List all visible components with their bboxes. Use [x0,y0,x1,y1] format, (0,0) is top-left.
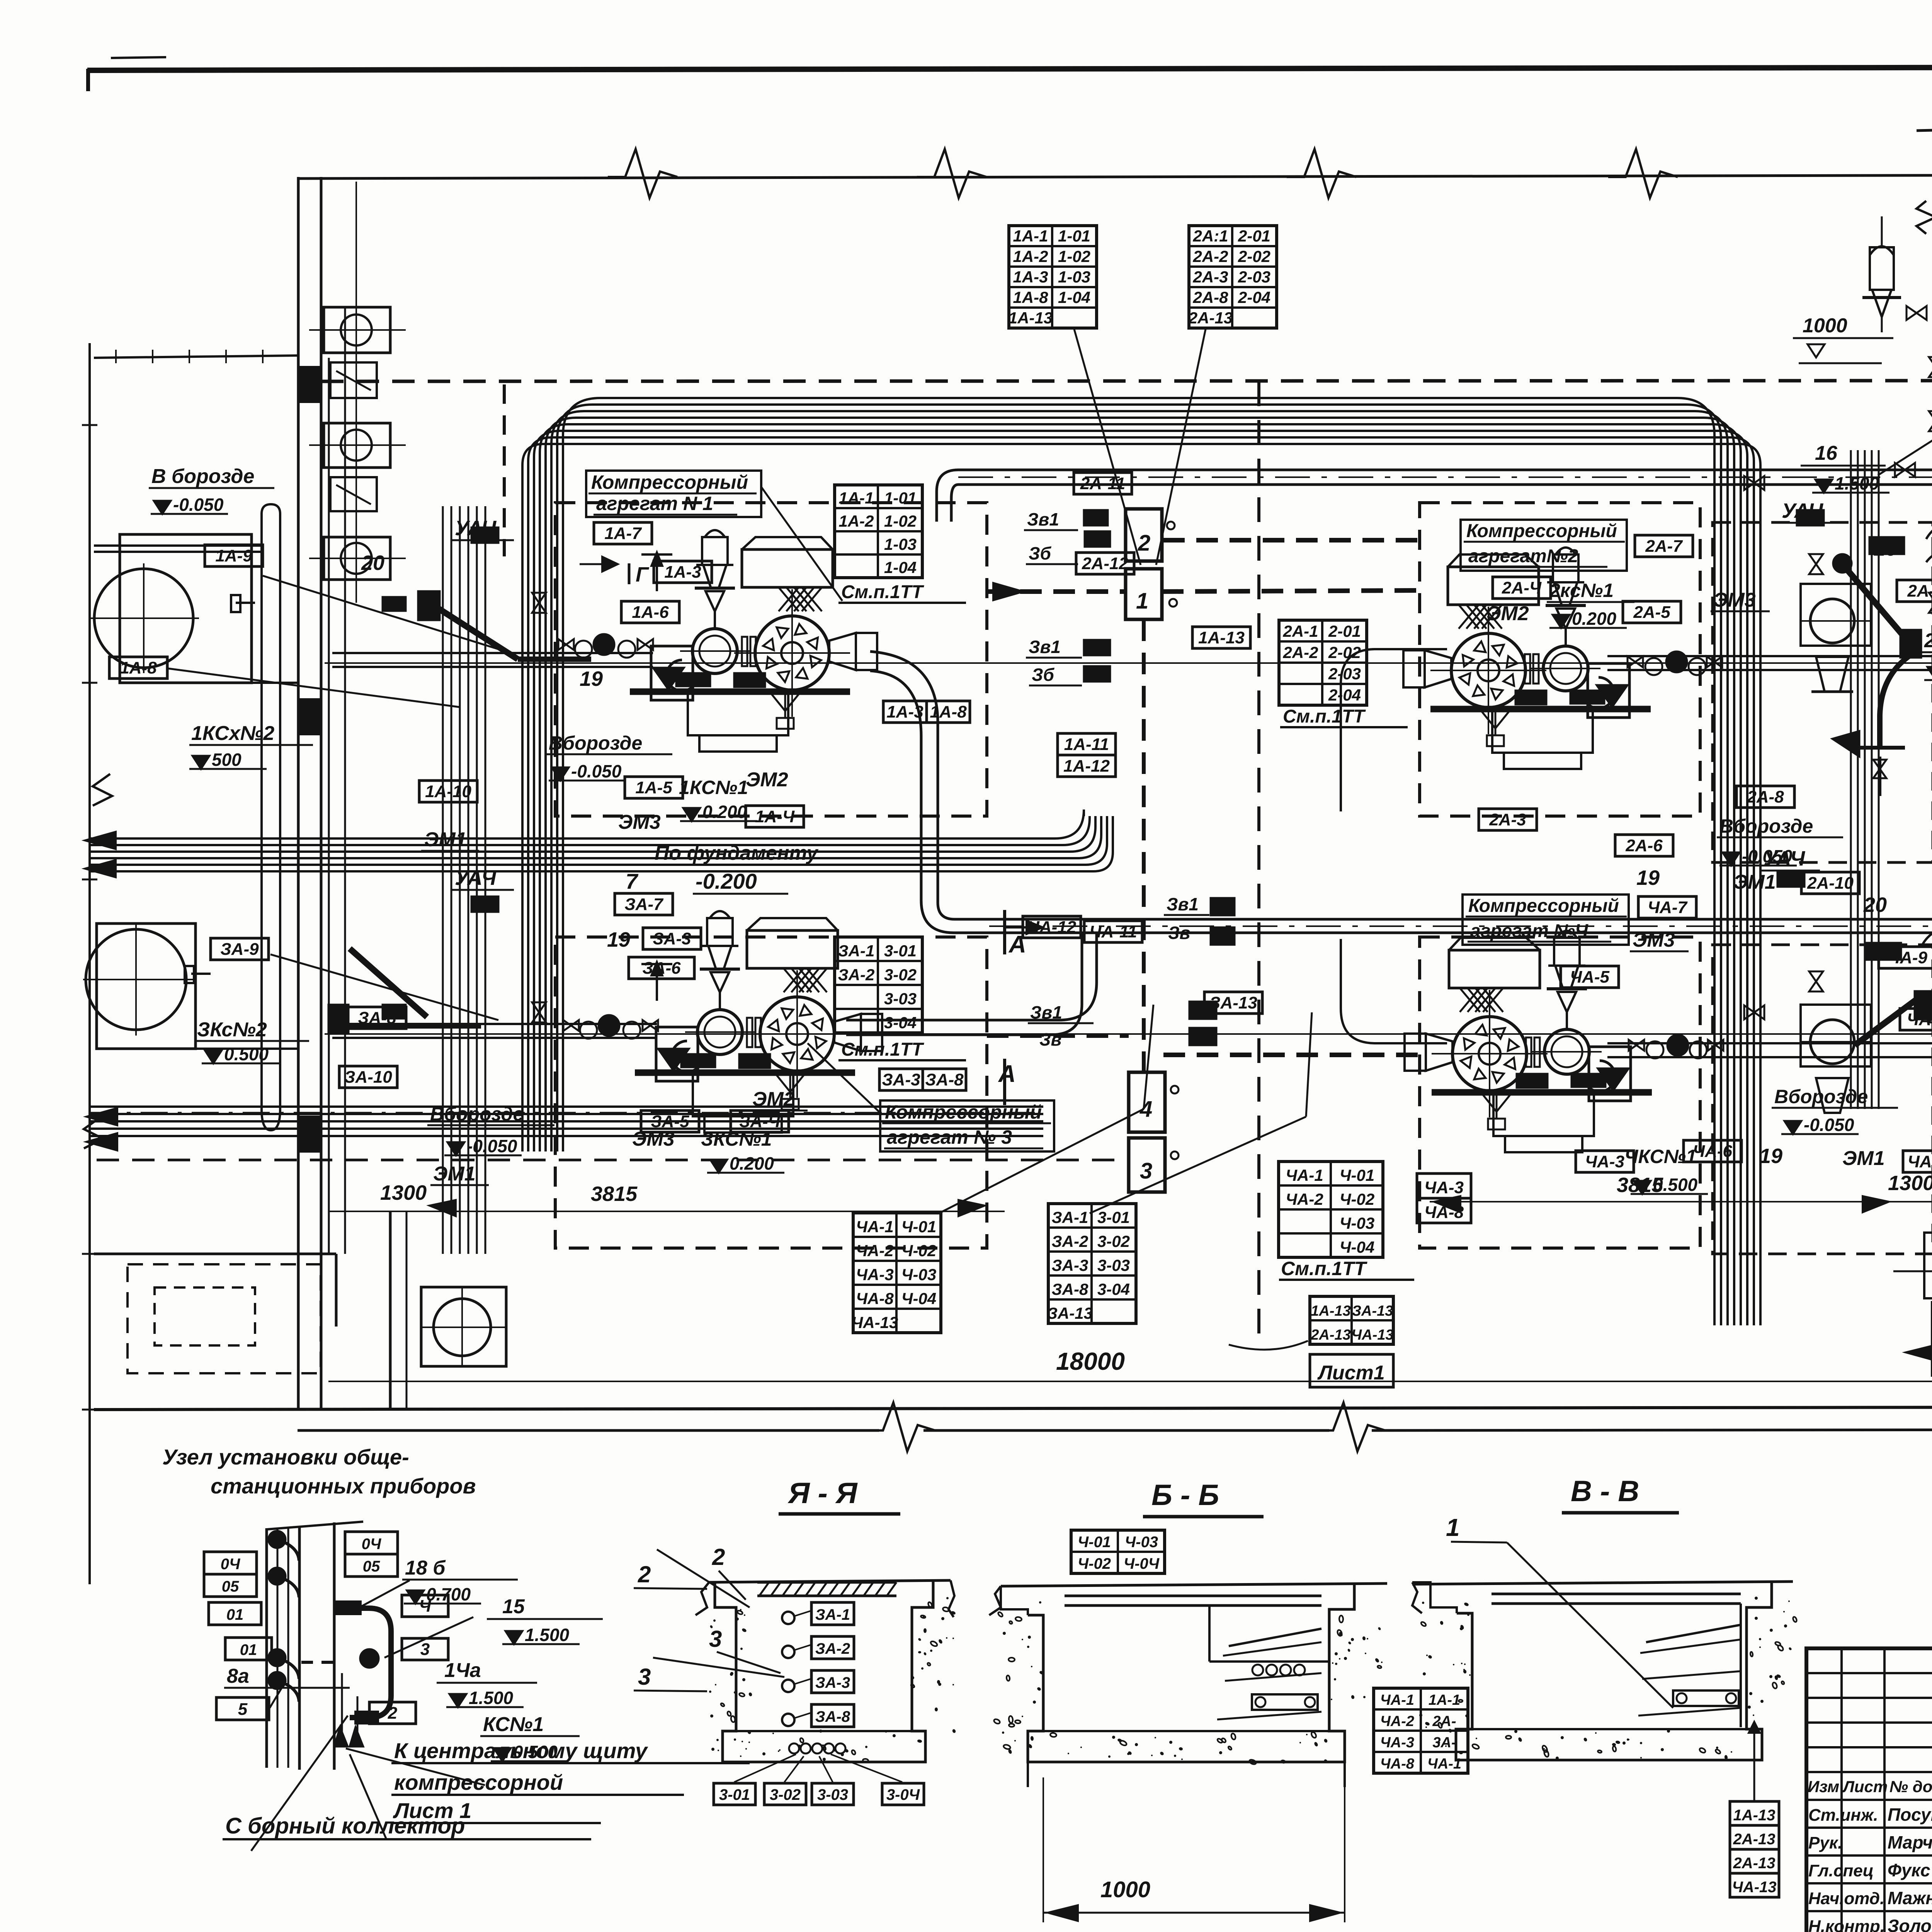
unit2 discharge elbow [1341,649,1447,811]
valves right column [1929,357,1932,377]
svg-text:ЧА-1: ЧА-1 [856,1218,893,1236]
hatched cover of А-А [757,1581,896,1584]
label box 2А-8 [1736,786,1794,808]
detail column (double wall) [265,1528,268,1768]
svg-text:2-03: 2-03 [1328,665,1361,683]
svg-text:1.500: 1.500 [469,1688,514,1708]
label box 2А-12 [1076,553,1134,574]
label box 1А-8 [109,657,167,679]
junction box 2 [1126,509,1162,561]
svg-text:2А-Ч: 2А-Ч [1502,578,1542,597]
svg-text:3-04: 3-04 [884,1014,917,1032]
svg-text:С борный коллектор: С борный коллектор [225,1813,465,1838]
svg-text:Г: Г [636,563,650,586]
svg-text:Зв1: Зв1 [1030,1002,1062,1022]
svg-text:УАЧ: УАЧ [1764,847,1806,870]
filter room dashed (right lower) [1713,945,1932,1254]
svg-text:-0.200: -0.200 [696,869,757,893]
valve group unit2 top [1809,554,1823,574]
concrete speckle А-А [744,1614,745,1616]
small pipes along left wall [332,652,653,654]
svg-text:Ч-04: Ч-04 [1340,1238,1374,1256]
Б-Б/В-В shared table ЧА [1374,1688,1468,1773]
svg-text:2А-2: 2А-2 [1192,247,1228,265]
label box ЧА-5 [1561,966,1619,988]
label box ЧА-8 [1900,1009,1932,1030]
svg-text:ЧКС№1: ЧКС№1 [1624,1146,1697,1167]
detail dashed pipe [301,1661,336,1664]
svg-text:№ докум.: № докум. [1889,1777,1932,1796]
svg-text:ЗА-10: ЗА-10 [344,1068,392,1087]
svg-text:1-01: 1-01 [1058,227,1090,245]
left wall column marks [298,367,321,402]
bottom-left annex room [94,1253,336,1255]
svg-text:1А-6: 1А-6 [632,603,669,622]
svg-text:1А-Ч: 1А-Ч [755,807,795,826]
svg-text:1-02: 1-02 [1058,247,1090,265]
Б-Б cover plate [1065,1595,1321,1597]
label box 1А-13 [1192,627,1250,648]
svg-text:3-03: 3-03 [1097,1256,1130,1274]
svg-text:3: 3 [709,1626,722,1652]
svg-text:Компрессорный: Компрессорный [591,471,748,493]
А-А bottom labels 3-01..3-04 [714,1783,755,1805]
label box ЧА-3 small [1576,1151,1634,1172]
svg-text:агрегат № 3: агрегат № 3 [887,1126,1012,1148]
svg-text:1А-12: 1А-12 [1063,757,1110,776]
safety valve symbol [1870,247,1894,290]
svg-text:2А-10: 2А-10 [1807,874,1854,893]
svg-text:1-02: 1-02 [884,512,917,530]
svg-text:Зб: Зб [1029,543,1052,563]
svg-text:Марченко: Марченко [1888,1832,1932,1852]
svg-text:ЧА-3: ЧА-3 [856,1265,893,1284]
concrete speckle Б-Б [1027,1646,1029,1648]
svg-text:Ч-02: Ч-02 [901,1242,936,1260]
label box ЧА-12 ЧА-11 [1023,916,1081,938]
svg-text:2А-3: 2А-3 [1489,810,1526,829]
svg-text:Зб: Зб [1032,665,1055,685]
svg-text:ЭМ1: ЭМ1 [1733,871,1776,893]
svg-text:В - В: В - В [1571,1475,1639,1508]
label box ЗА-8 left [348,1007,406,1029]
svg-text:1А-8: 1А-8 [930,702,967,721]
label box ЧА-9 [1879,947,1932,968]
svg-text:См.п.1ТТ: См.п.1ТТ [841,582,924,602]
svg-text:Нач.отд.: Нач.отд. [1808,1889,1884,1908]
junction box 4 [1129,1072,1165,1132]
svg-text:Компрессорный: Компрессорный [1468,896,1619,916]
unit axis line lower [325,1033,1932,1035]
break mark on top wall [1287,149,1356,198]
svg-text:ЧА-12: ЧА-12 [1027,918,1077,937]
svg-text:Ч-01: Ч-01 [1340,1166,1374,1184]
svg-text:ЗКС№1: ЗКС№1 [701,1128,772,1150]
dashed enclosure unit 2 [1420,503,1700,816]
label box ЧА-6 [1684,1140,1742,1162]
left annex room 1 [120,534,252,683]
svg-text:агрегат N 1: агрегат N 1 [596,493,713,514]
svg-text:К центральному щиту: К центральному щиту [394,1738,648,1763]
svg-text:ЗА-9: ЗА-9 [220,940,259,959]
svg-text:ЗА-8: ЗА-8 [1052,1280,1088,1298]
svg-text:1.500: 1.500 [525,1625,570,1645]
svg-text:2А-11: 2А-11 [1080,474,1126,493]
svg-text:В борозде: В борозде [151,465,254,488]
label box 2А-3 [1479,809,1537,830]
label box 1А-11/1А-12 [1058,733,1116,755]
svg-text:1А-2: 1А-2 [1013,247,1048,265]
Б-Б cable slide [1229,1629,1321,1646]
svg-text:ЧА-10: ЧА-10 [1908,1152,1932,1171]
svg-text:Зв: Зв [1039,1029,1061,1049]
svg-text:18 б: 18 б [405,1557,446,1579]
svg-text:0.200: 0.200 [730,1153,774,1173]
unit3 discharge elbow [846,933,1097,1020]
cable trench dashed line above bundle [321,381,1932,381]
svg-text:2-03: 2-03 [1238,268,1270,286]
compressor unit 1 (Компрессорный агрегат №1) [558,530,877,752]
svg-text:1КС№1: 1КС№1 [679,777,748,798]
label box ЗА-3 unit3 [643,928,701,949]
fan unit circle in left annex 2 [86,929,186,1030]
svg-text:1А-13: 1А-13 [1009,309,1053,327]
label box ЗА-13 [1204,992,1262,1014]
S-pipe unit2 (black) [1880,655,1911,748]
В-В bottom stack labels 13 [1730,1801,1779,1825]
dashed enclosure unit 4 [1420,937,1700,1248]
svg-text:19: 19 [1636,866,1660,889]
label box 1А-4 [746,806,804,827]
main discharge pipe upper (to right annex) [958,469,1932,471]
В-В cable slide [1646,1625,1741,1642]
label box 1А-3 [654,561,712,583]
svg-text:05: 05 [222,1578,239,1595]
svg-text:1А-3: 1А-3 [664,563,701,582]
svg-text:0.200: 0.200 [1572,609,1617,629]
section В-В trench [1412,1582,1422,1613]
section cut marker A lower [1003,1059,1006,1105]
svg-text:2А-8: 2А-8 [1747,787,1784,806]
label box 2А-10 [1801,872,1859,894]
svg-text:1А-13: 1А-13 [1733,1807,1776,1824]
svg-text:15: 15 [502,1595,525,1618]
detail label box 2 [369,1702,416,1724]
svg-text:ЗА-1: ЗА-1 [1052,1208,1088,1226]
svg-text:7: 7 [626,869,639,893]
svg-text:1КСх№2: 1КСх№2 [191,722,274,745]
svg-text:ЭМ3: ЭМ3 [632,1128,675,1150]
svg-text:Зв1: Зв1 [1167,894,1199,914]
svg-text:1А-3: 1А-3 [886,702,923,721]
unit1 discharge elbow [870,651,989,919]
break mark on top wall [917,149,986,198]
svg-text:-0.050: -0.050 [173,495,224,515]
stub pipe pair left annex [94,544,262,547]
svg-text:2А-5: 2А-5 [1633,603,1670,622]
compressor unit 3 (Компрессорный агрегат №3) [563,911,882,1133]
svg-text:ЭМ2: ЭМ2 [752,1088,795,1111]
svg-text:0.500: 0.500 [224,1044,269,1064]
svg-text:3-0Ч: 3-0Ч [886,1786,920,1803]
svg-text:2А-13: 2А-13 [1310,1327,1351,1343]
wall: left main wall (double) [297,177,300,1410]
leader lines from top tables [1074,329,1141,565]
svg-text:1300: 1300 [380,1181,427,1204]
svg-text:УАЧ: УАЧ [455,866,497,889]
svg-text:5: 5 [238,1700,248,1719]
section А-А trench [709,1580,951,1582]
wall connector boxes [330,362,377,398]
svg-text:ЧА-8: ЧА-8 [856,1289,894,1308]
svg-text:Компрессорный: Компрессорный [885,1101,1042,1123]
thick feed pipe unit2 (black) [1833,554,1852,573]
label box 1А-9 [205,545,263,566]
column line bottom-left [389,1211,392,1408]
heavy dashed interconnect lower [987,1033,1129,1038]
pipe bundle: main loop (left riser - top run - right riser) [522,444,1760,1325]
svg-text:1.500: 1.500 [1835,473,1879,493]
riser bundle left of unit enclosures [442,506,444,1254]
sheet top border line [87,66,1932,70]
svg-text:Ч-03: Ч-03 [901,1265,936,1284]
svg-text:2: 2 [1138,531,1150,556]
svg-text:ЧА-3: ЧА-3 [1380,1735,1414,1751]
svg-text:Изм: Изм [1808,1777,1839,1796]
svg-text:ЧА-1: ЧА-1 [1286,1166,1323,1184]
thick feed pipe unit4 (black) [1855,999,1917,1045]
floor drain unit bottom-left [421,1287,506,1366]
svg-text:ЭМ1: ЭМ1 [433,1163,476,1185]
svg-text:1: 1 [1446,1514,1460,1541]
svg-text:1А-2: 1А-2 [838,512,874,530]
svg-text:2-02: 2-02 [1238,247,1270,265]
svg-text:ЧА-13: ЧА-13 [1732,1879,1776,1896]
signal table unit4 (right) [1279,1162,1383,1257]
central axis dashed line [1257,381,1260,1341]
svg-text:ЗА-13: ЗА-13 [1209,993,1257,1012]
svg-text:-0.050: -0.050 [1804,1115,1854,1135]
svg-text:2: 2 [388,1704,398,1723]
svg-text:станционных приборов: станционных приборов [211,1474,476,1498]
thick feed pipe unit1 (black) [439,609,518,659]
label box ЗА-6 [629,957,694,979]
svg-text:Зв: Зв [1168,923,1190,943]
break chevron on left wall pipes [93,774,112,806]
svg-text:3815: 3815 [1617,1173,1663,1197]
svg-text:агрегат №Ч: агрегат №Ч [1470,921,1588,941]
svg-text:2А-12: 2А-12 [1082,554,1128,573]
svg-text:2-01: 2-01 [1238,227,1270,245]
main discharge pipe lower [989,918,1932,921]
svg-text:ЭМ2: ЭМ2 [1486,602,1529,625]
svg-text:Вборозде: Вборозде [1719,815,1813,837]
svg-text:2А-: 2А- [1432,1713,1456,1730]
section cut marker A upper [1003,910,1006,954]
label box ЗА-5 [641,1111,699,1132]
svg-text:ЧА-8: ЧА-8 [1380,1756,1415,1772]
svg-text:3-03: 3-03 [817,1786,848,1803]
svg-text:Ч-0Ч: Ч-0Ч [1124,1555,1160,1572]
svg-text:Ч-04: Ч-04 [901,1289,936,1308]
unit2 suction pipe [1607,655,1932,657]
svg-text:Посупонько: Посупонько [1888,1804,1932,1825]
svg-text:Зв1: Зв1 [1029,637,1061,657]
svg-text:Ч-03: Ч-03 [1340,1214,1374,1232]
svg-text:3-01: 3-01 [884,942,917,960]
svg-text:3-02: 3-02 [884,966,917,984]
svg-text:3-04: 3-04 [1097,1280,1130,1298]
detail label box 01 second [225,1638,272,1660]
svg-text:05: 05 [363,1558,380,1575]
wall instrument boxes with circles [324,307,390,353]
svg-text:Мажников: Мажников [1888,1888,1932,1908]
junction box 3 [1129,1138,1165,1192]
svg-text:ЭМ3: ЭМ3 [1633,929,1675,951]
svg-text:Ч: Ч [419,1597,431,1616]
detail label box 3 [402,1638,448,1660]
svg-text:ЧА-13: ЧА-13 [852,1313,898,1332]
compressor unit 4 (Компрессорный агрегат №4) [1405,931,1723,1152]
svg-text:2А-13: 2А-13 [1188,309,1233,327]
break mark on top wall [1608,149,1678,198]
svg-text:2А-8: 2А-8 [1192,288,1228,306]
svg-text:Лист: Лист [1842,1777,1888,1796]
wall: left annex outer wall [88,343,91,1584]
svg-text:ЧА-7: ЧА-7 [1648,898,1688,917]
label box ЗА-7 [615,893,673,915]
wall riser lines inside left wall [328,358,330,1254]
svg-text:ЭМ1: ЭМ1 [1842,1147,1885,1170]
svg-text:1А-8: 1А-8 [1013,288,1048,306]
detail label box У [402,1595,448,1617]
svg-text:1А-1: 1А-1 [1013,227,1048,245]
svg-text:2А-9: 2А-9 [1907,582,1932,600]
svg-text:См.п.1ТТ: См.п.1ТТ [1283,706,1366,727]
svg-text:19: 19 [607,928,630,951]
svg-text:КС№1: КС№1 [483,1713,544,1736]
label box ЗА-3|ЗА-8 pair [879,1069,923,1090]
svg-text:1А-3: 1А-3 [1013,268,1048,286]
detail label boxes 04/05 left [204,1552,257,1574]
svg-text:ЭМ3: ЭМ3 [618,811,661,833]
svg-text:ЗА-2: ЗА-2 [838,966,875,984]
break mark on top wall [608,149,677,198]
svg-text:ЧА-5: ЧА-5 [1570,968,1610,986]
svg-text:ЗА-1: ЗА-1 [838,942,875,960]
svg-text:18000: 18000 [1056,1347,1125,1375]
svg-text:ЗКс№2: ЗКс№2 [197,1019,267,1041]
svg-text:1-03: 1-03 [1058,268,1090,286]
label box 2А-6 [1615,835,1673,856]
svg-text:3: 3 [1140,1158,1152,1184]
svg-text:3-03: 3-03 [884,990,917,1008]
svg-text:1-01: 1-01 [884,489,917,507]
svg-text:ЭМ3: ЭМ3 [1713,589,1756,611]
svg-text:500: 500 [212,750,241,770]
signal table 1A (top) [1009,226,1097,328]
svg-text:20: 20 [1863,893,1887,917]
svg-text:1А-11: 1А-11 [1064,735,1109,754]
left annex mid walls [120,682,298,684]
svg-text:ЗА-13: ЗА-13 [1352,1303,1393,1319]
svg-text:3: 3 [420,1640,430,1659]
А-А bottom dots [789,1743,799,1753]
label box ЗА-4 [731,1111,789,1132]
svg-text:Лист1: Лист1 [1317,1362,1385,1384]
svg-text:2КС №2: 2КС №2 [1924,629,1932,652]
svg-text:Зв1: Зв1 [1027,509,1059,529]
svg-text:3-02: 3-02 [770,1786,801,1803]
label box 1А-3|1А-8 pair [883,701,927,723]
svg-text:1000: 1000 [1100,1877,1150,1902]
sheet reference Лист 1 [1310,1354,1393,1387]
detail label box 5 [216,1697,269,1720]
svg-text:ЧА-1: ЧА-1 [1380,1692,1414,1708]
svg-text:1-04: 1-04 [884,558,917,577]
survey tick line upper left [94,355,299,358]
heavy dashed riser between switch boxes [1142,619,1146,1072]
svg-text:2-04: 2-04 [1328,686,1361,704]
svg-text:ЗА-1: ЗА-1 [815,1606,850,1623]
svg-text:ЧА-11: ЧА-11 [1089,922,1137,941]
label box ЗА-9 [211,938,269,960]
signal table A-13 group [1310,1296,1393,1344]
svg-text:компрессорной: компрессорной [394,1770,563,1794]
heavy dash from box 2 to unit 2 [1163,538,1420,543]
tall U pipe outside left wall [262,514,280,1130]
svg-text:2А-13: 2А-13 [1733,1855,1776,1872]
thick feed pipe unit3 (black) [350,949,427,1017]
arrows into wall on middle bundle [84,832,116,849]
label box ЧА-7 [1638,896,1696,918]
svg-text:По фундаменту: По фундаменту [655,842,819,864]
svg-text:Фукс: Фукс [1888,1860,1930,1880]
svg-text:ЗА-3: ЗА-3 [1052,1256,1088,1274]
signal table unit3 (upper) [835,937,922,1033]
pipe bundle: middle run to unit 3 [91,816,1113,871]
svg-text:0.200: 0.200 [702,802,747,822]
svg-text:Рук.: Рук. [1808,1833,1842,1852]
svg-text:Компрессорный: Компрессорный [1466,521,1617,541]
svg-text:ЧА-3: ЧА-3 [1585,1152,1624,1171]
concrete speckle В-В [1423,1672,1426,1675]
detail instrument bracket [342,1608,391,1718]
left annex room 2 [97,923,196,1049]
svg-text:0Ч: 0Ч [221,1556,240,1573]
leader from table to unit3 [939,1109,1144,1213]
svg-text:агрегат№2: агрегат№2 [1468,546,1578,566]
svg-text:Н.контр.: Н.контр. [1808,1917,1885,1932]
detail sensors (dots on column) [269,1531,286,1548]
svg-text:2-01: 2-01 [1328,622,1361,640]
unit axis line upper [325,662,1932,664]
svg-text:Ст.инж.: Ст.инж. [1808,1806,1878,1825]
svg-text:16: 16 [1815,442,1838,464]
svg-text:3815: 3815 [591,1182,638,1206]
wall: plan top wall [298,175,1932,179]
svg-text:2: 2 [638,1561,651,1587]
svg-text:ЗА-3: ЗА-3 [882,1070,920,1089]
А-А inner label boxes [811,1602,854,1625]
svg-text:20: 20 [361,551,384,575]
valve group unit3 [532,1002,546,1022]
svg-text:01: 01 [240,1641,257,1658]
detail label boxes 04/05 right [345,1532,398,1554]
svg-text:1А-1: 1А-1 [838,489,874,507]
svg-text:Ч-01: Ч-01 [901,1218,936,1236]
svg-text:1: 1 [1136,588,1148,614]
